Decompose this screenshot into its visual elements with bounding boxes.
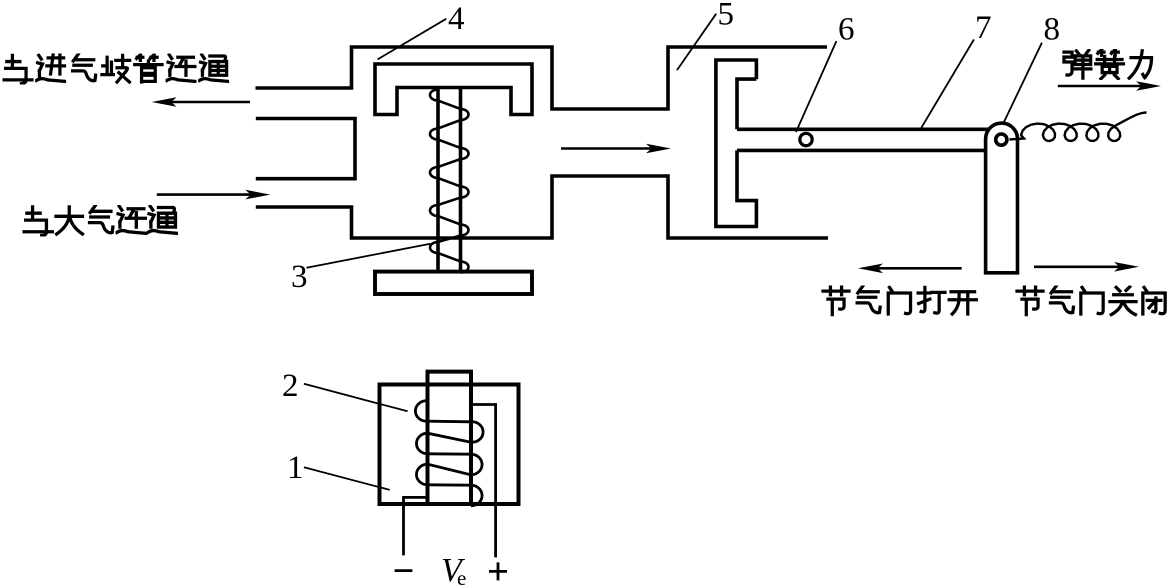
plunger base flange	[375, 272, 532, 294]
leader line 8	[1003, 43, 1042, 124]
plunger stem	[438, 88, 461, 272]
spring 3 (coil around plunger stem)	[430, 90, 469, 273]
svg-text:3: 3	[291, 259, 308, 295]
leader line 2	[304, 384, 408, 412]
leader line 3	[307, 244, 431, 268]
leader line 1	[304, 467, 390, 490]
positive lead wire	[473, 405, 496, 558]
text label 节气门打开 (throttle opens)	[823, 286, 976, 315]
leader line 7	[920, 40, 974, 131]
rod 7	[737, 129, 989, 150]
svg-text:e: e	[457, 566, 466, 587]
arrow to intake manifold (left)	[152, 97, 250, 107]
text label 与大气连通 (connect to atmosphere)	[24, 206, 177, 236]
throttle-open arrow (left)	[858, 264, 962, 274]
pivot circle 8	[996, 134, 1007, 145]
valve seat bracket 4	[375, 64, 532, 115]
diaphragm bracket in chamber 5	[716, 60, 757, 227]
text label 弹簧力 (spring force)	[1064, 50, 1152, 79]
return spring (coiled, right of pivot)	[1010, 113, 1147, 142]
svg-text:4: 4	[448, 1, 465, 37]
flow arrow to chamber (right)	[561, 144, 671, 154]
plus sign	[489, 562, 507, 580]
svg-text:6: 6	[838, 12, 855, 48]
arrow from atmosphere (right)	[157, 190, 270, 200]
text label 节气门关闭 (throttle closes)	[1017, 286, 1165, 315]
solenoid coil winding	[415, 401, 483, 506]
svg-text:2: 2	[282, 368, 299, 404]
throttle-close arrow (right)	[1034, 262, 1139, 272]
leader line 4	[378, 19, 447, 60]
roller 6	[800, 133, 812, 145]
spring force arrow (right)	[1058, 81, 1161, 91]
svg-text:5: 5	[718, 0, 735, 33]
svg-text:7: 7	[975, 10, 992, 46]
text label 与进气歧管连通 (connect to intake manifold)	[4, 54, 228, 83]
valve housing upper outline	[256, 47, 828, 109]
svg-text:1: 1	[287, 450, 304, 486]
leader line 5	[677, 14, 716, 70]
valve housing lower outline	[256, 176, 828, 238]
minus sign	[395, 569, 413, 572]
throttle plate 8	[986, 123, 1018, 273]
svg-text:8: 8	[1044, 12, 1061, 48]
solenoid housing 1	[380, 385, 519, 505]
leader line 6	[796, 41, 836, 132]
solenoid core 2	[428, 372, 472, 504]
negative lead wire	[404, 497, 427, 555]
port separator wall	[256, 119, 355, 179]
